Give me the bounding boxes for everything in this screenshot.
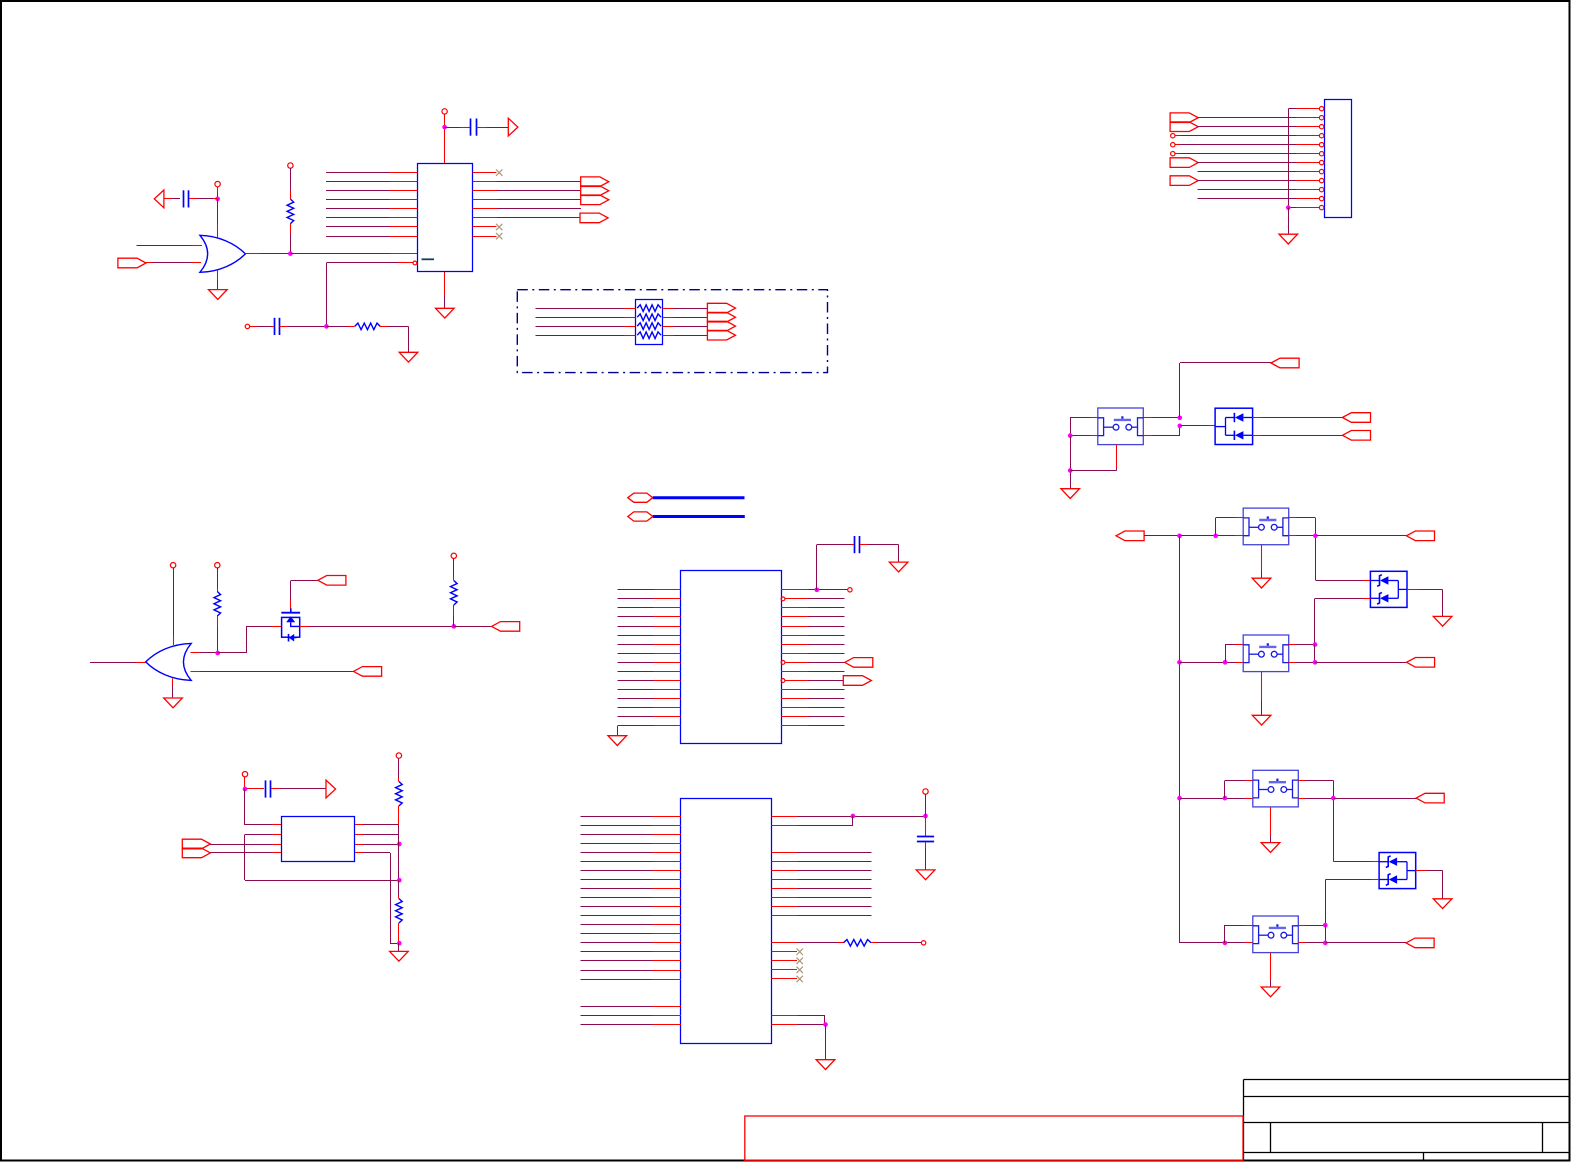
wire R4 to node chain [398,806,400,880]
wire U2B input 2 [191,671,354,673]
junction U4 R1 / C5 [923,814,928,819]
wire U4 left pin 6 [581,861,682,863]
junction S5 right bottom [1323,941,1328,946]
wire U1 left pin 5 [326,208,418,210]
ground (C4) [889,562,908,572]
pin bubble J1 pin 3 [1319,125,1323,129]
wire S1 right top [1144,417,1181,419]
wire U4 left pin 11 [581,906,682,908]
wire Q1 gate [291,581,319,609]
wire R3 to node [217,616,219,653]
wire C1 right to junction [189,198,218,200]
wire U4 left pin 5 [581,852,682,854]
wire S1 left bottom [1070,435,1098,437]
wire S4 bottom pin [1270,807,1272,843]
switch S4 [1253,770,1299,807]
wire D2 out [1407,590,1443,617]
wire U1 pin 10 (enable net) [327,263,414,327]
wire RP1 right pin 1 [663,308,708,310]
port arrow (U5 input B) [182,848,210,858]
wire S2 right bottom [1288,535,1316,537]
wire RP1 left pin 1 [536,308,636,310]
resistor element RP1-4 [637,332,661,339]
switch S3 [1243,635,1289,672]
wire U4 left pin 2 [581,825,682,827]
wire U4 left pin 19 [581,979,682,981]
wire C3 to power arrow [477,127,509,129]
wire U4 right pin 2 [772,816,854,826]
wire U3 left pin 16 to ground [618,726,681,736]
wire U3 right pin 10 [781,671,845,673]
wire U2B input 1 [191,652,218,654]
wire J1 pin 1 to bus vertical [1289,108,1297,110]
junction S4 right [1331,796,1336,801]
port arrow (row4 net) [1416,793,1444,803]
wire U1 left pin 2 [326,181,418,183]
wire row2 input [1144,535,1180,537]
ground (U5) [390,951,409,961]
junction S5 left [1223,941,1228,946]
resistor R1 [287,199,294,224]
wire S2 left bracket [1216,518,1244,537]
ground (U3 left) [608,736,627,746]
wire J1 pin 11 stub [1297,198,1320,200]
port arrow (U1 R6) [580,213,608,223]
IC U5 [282,817,355,862]
wire R6 to ground node [398,923,400,943]
wire U1 left pin 6 [326,217,418,219]
wire U4 right pin 15 (NC) [772,978,798,980]
port arrow (RP1 out 3) [707,321,735,331]
wire C1 left [164,198,180,200]
pin bubble U3 pin R2 [781,597,785,601]
IC U4 [681,799,772,1044]
ground (U4) [816,1060,835,1070]
wire row4 to port [1334,798,1417,800]
ground (enable RC) [399,352,418,362]
junction S2 left [1213,533,1218,538]
wire J1 pin 2 stub [1297,117,1320,119]
resistor element RP1-1 [637,305,661,312]
power symbol VCC (above U1) [442,109,447,114]
wire U5 right pin 2 [355,834,399,836]
wire U4 left pin 7 [581,870,682,872]
wire U3 right pin 12 [781,689,845,691]
pin bubble J1 pin 11 [1319,196,1323,200]
wire VCC to C5 node [925,794,927,836]
port arrow (U2B input 2) [354,667,382,677]
junction R4/R6 chain [397,878,402,883]
port arrow (U2A input 2) [118,258,146,268]
wire D2 bottom lead [1315,599,1371,645]
junction row3 column [1177,660,1182,665]
junction R3/U2B input [215,651,220,656]
wire J1 pin 1 stub [1297,108,1320,110]
junction U5 power node [243,787,248,792]
pin bubble J1 pin 7 [1319,160,1323,164]
wire row2 to S2 [1180,535,1244,537]
terminal circle (enable input) [245,324,249,328]
OR gate U2A [200,235,246,272]
wire U4 left pin 16 [581,951,682,953]
wire U4 right pin 16 [772,1016,826,1025]
wire S4 to D3 [1334,861,1380,863]
diode pack D3 [1379,853,1416,889]
pin bubble J1 pin 8 [1319,169,1323,173]
wire U4 right pin 5 [772,870,872,872]
wire U3 left pin 13 [618,698,681,700]
wire U1 ground pin [444,272,446,309]
bus wire 1 [653,496,745,499]
wire J1 pin 3 [1198,126,1297,128]
wire U3 left pin 1 [618,589,681,591]
wire J1 ground vertical [1288,109,1290,208]
wire S1 right bottom [1144,426,1181,436]
junction U3 pin R1 / C4 [814,587,819,592]
capacitor C3 [471,119,477,136]
junction S3 left [1223,660,1228,665]
wire U1 right pin R4 [473,199,581,201]
wire S2 to D2 [1316,580,1371,582]
port arrow (D1 top) [1342,413,1370,423]
port arrow (J1 pin 7) [1170,158,1198,168]
power arrow port (right of C3) [508,118,518,136]
wire S1 bottom pin [1070,445,1117,471]
wire U4 left pin 10 [581,897,682,899]
port arrow (RP1 out 4) [707,330,735,340]
IC U3 [681,571,782,744]
power symbol VCC (near C1) [215,181,220,186]
power symbol VCC (U5) [242,772,247,777]
wire U4 right pin 13 (NC) [772,960,798,962]
wire J1 pin 9 [1198,180,1297,182]
port arrow (row2 input) [1116,531,1144,541]
wire D1 out bottom [1253,435,1343,437]
port arrow (U5 input A) [182,839,210,849]
red revision box [745,1116,1243,1160]
wire junction to C3 [445,127,471,129]
ground (C5) [916,870,935,880]
wire U4 left pin 12 [581,915,682,917]
pin bubble J1 pin 9 [1319,178,1323,182]
wire R1 to net [290,224,292,254]
wire U4 left pin 9 [581,888,682,890]
wire U5 right pin 4 [355,853,399,944]
wire S2 right top [1288,518,1316,581]
port arrow (U1 R4) [581,195,609,205]
wire U1 left pin 8 [326,236,418,238]
wire net to port (row1 top) [1180,363,1272,419]
ground (D3) [1433,899,1452,909]
wire VCC to U2B top pin [173,568,175,645]
wire J1 pin 2 [1198,117,1297,119]
wire U1 right pin R3 [473,190,581,192]
wire U3 left pin 3 [618,607,681,609]
wire VCC to R1 [290,168,292,199]
ground (S3) [1252,715,1271,725]
IC U1 [418,164,473,272]
junction row2 column [1177,533,1182,538]
wire U4 right pin 1 [772,816,926,818]
junction S1 right top [1177,415,1182,420]
wire junction to R5 [327,326,355,328]
wire S5 right top [1299,925,1326,927]
wire U3 right pin 5 [781,626,845,628]
wire row5 to S5 [1180,942,1254,944]
wire D3 out [1416,871,1443,900]
wire VCC to R2 [453,559,455,581]
wire C2 to junction [280,326,327,328]
wire D3 bottom lead [1326,880,1380,926]
junction R6/ground [397,941,402,946]
junction J1 pin 12 / ground [1286,205,1291,210]
ground (D2) [1433,616,1452,626]
pin bubble J1 pin 1 [1319,107,1323,111]
wire J1 pin 12 stub [1297,207,1320,209]
wire U4 right pin 9 [772,906,872,908]
resistor R6 [396,899,403,924]
wire U3 right pin 1 [781,589,848,591]
wire U3 right pin 11 [785,680,844,682]
port arrow (U1 R2) [581,177,609,187]
wire J1 pin 12 to ground [1288,208,1290,235]
wire U4 left pin 15 [581,942,682,944]
wire row3 to S3 [1180,662,1244,664]
resistor element RP1-2 [637,314,661,321]
power symbol VCC (above R2) [451,553,456,558]
wire U5 pin 4 [211,852,282,854]
wire U4 right pin 7 [772,888,872,890]
port arrow (row2 net) [1406,531,1434,541]
port arrow (Q1 drain net) [492,622,520,632]
wire U4 left pin 3 [581,834,682,836]
wire U4 left pin 18 [581,970,682,972]
wire U4 right pin 14 (NC) [772,969,798,971]
wire J1 pin 11 [1198,198,1297,200]
wire U4 left pin 14 [581,933,682,935]
wire U4 right pin 17 [772,1024,826,1026]
wire U1 right pin R2 [473,181,581,183]
pin bubble J1 pin 10 [1319,187,1323,191]
junction U1 power node [442,125,447,130]
junction U4 bottom right [823,1022,828,1027]
switch S2 [1243,508,1289,545]
wire junction to C6 [247,788,264,790]
port arrow (RP1 out 2) [707,312,735,322]
wire U3 left pin 6 [618,635,681,637]
pin bubble J1 pin 6 [1319,152,1323,156]
wire U3 right pin 4 [781,616,845,618]
ground (under J1) [1279,234,1298,244]
terminal circle (J1 pin 6) [1171,152,1175,156]
wire row5 to port [1326,942,1407,944]
resistor R3 [214,592,221,617]
wire C6 to power arrow [271,788,326,790]
wire U4 left pin 17 [581,960,682,962]
wire node to port [454,626,492,628]
wire C4 branch [817,545,855,591]
port arrow (D1 bottom) [1342,431,1370,441]
junction node C1/OR input [215,197,220,202]
wire VCC to U1 power pin [444,114,446,163]
resistor R5 [355,323,381,330]
resistor R2 [451,581,458,606]
wire U1 left pin 4 [326,199,418,201]
capacitor C4 [855,536,860,553]
ground (S1) [1061,489,1080,499]
wire U4 right pin 6 [772,879,872,881]
wire U3 left pin 10 [618,671,681,673]
wire U3 left pin 12 [618,689,681,691]
port arrow (row3 net) [1407,658,1435,668]
wire row2 to port [1316,535,1407,537]
junction S5 right top [1323,923,1328,928]
wire U5 right pin 3 [355,844,399,846]
wire U2A input 2 [146,262,201,264]
pin bubble J1 pin 2 [1319,116,1323,120]
junction S4 left [1223,796,1228,801]
no-connect x U1 pin R7 [496,224,502,230]
wire S3 bottom pin [1261,672,1263,716]
wire S1 left top [1070,418,1098,436]
wire S5 bottom pin [1270,953,1272,988]
no-connect x U1 pin R8 [496,233,502,239]
OR gate U2B [146,643,192,680]
wire S4 left bracket [1225,781,1254,799]
ground (S2) [1252,578,1271,588]
wire U3 left pin 7 [618,644,681,646]
wire RP1 left pin 3 [536,326,636,328]
ground (under U1) [436,308,455,318]
capacitor C6 [266,780,271,797]
no-connect x U4 pin 12 [797,949,803,955]
wire U2A input 1 [137,245,203,247]
wire U3 right pin 14 [781,707,845,709]
wire S5 right bottom [1299,925,1326,943]
port arrow (RP1 out 1) [707,303,735,313]
wire U5 pin 3 [211,844,282,846]
wire RP1 right pin 3 [663,326,708,328]
wire junction down to U2A top pin [217,199,219,238]
power symbol VCC (above R4) [396,753,401,758]
wire U3 right pin 6 [781,635,845,637]
wire S1 left vertical to ground [1070,436,1072,489]
wire U3 left pin 4 [618,616,681,618]
wire U4 right pin 10 [772,915,872,917]
pin bubble J1 pin 4 [1319,134,1323,138]
dashed option box [517,290,827,373]
wire U3 right pin 16 [781,725,845,727]
wire Q1 drain [300,626,455,628]
wire U4 left pin 4 [581,843,682,845]
wire RP1 right pin 4 [663,335,708,337]
junction row4 column [1177,796,1182,801]
wire U3 left pin 5 [618,626,681,628]
pin bubble U3 pin R11 [781,679,785,683]
wire U2B output [90,662,146,664]
wire U3 left pin 11 [618,680,681,682]
resistor element RP1-3 [637,323,661,330]
wire U1 right pin R8 (NC) [473,236,497,238]
junction U5 R3 node [397,842,402,847]
wire R2 to node [453,605,455,627]
diode pack D1 [1215,408,1253,444]
transistor Q1 [281,608,300,641]
power symbol VCC (above R1) [288,163,293,168]
port arrow (row1 net) [1271,358,1299,368]
wire S3 right top [1289,644,1316,646]
negation dash inside U1 [422,258,435,260]
wire U3 left pin 8 [618,653,681,655]
wire U2A output [246,253,291,255]
no-connect x U4 pin 14 [797,967,803,973]
wire U4 left pin 22 [581,1024,682,1026]
wire U1 right pin R6 [473,217,581,219]
wire U5 pin 2 loop [245,835,400,881]
junction enable node [324,324,329,329]
wire U1 right pin R5 (open) [473,208,582,210]
pin bubble J1 pin 12 [1319,205,1323,209]
wire RP1 left pin 2 [536,317,636,319]
terminal circle (J1 pin 5) [1171,143,1175,147]
capacitor C5 [917,837,934,842]
wire U4 left pin 13 [581,924,682,926]
no-connect x U4 pin 15 [797,976,803,982]
wire VCC to junction [244,777,246,789]
diode pack D2 [1370,571,1407,607]
wire terminal to C2 [250,326,274,328]
wire U3 left pin 15 [618,716,681,718]
ground (S4) [1261,843,1280,853]
wire U4 left pin 8 [581,879,682,881]
wire U3 right pin 2 [785,598,845,600]
title block [1244,1080,1570,1161]
capacitor C2 [275,318,280,335]
wire U1 left pin 7 [326,226,418,228]
wire S4 right bottom [1299,798,1334,800]
wire S5 left bracket [1225,925,1254,943]
no-connect x U4 pin 13 [797,958,803,964]
ground (under U2B) [164,698,183,708]
wire U4 right pin 4 [772,861,872,863]
pin bubble U3 pin R9 [781,661,785,665]
junction S1 left [1068,433,1073,438]
wire J1 pin 8 stub [1297,171,1320,173]
wire J1 pin 5 stub [1297,144,1320,146]
bus port (bus 2) [628,512,653,521]
wire J1 pin 4 stub [1297,135,1320,137]
wire U4 right pin 8 [772,897,872,899]
wire U3 right pin 9 [785,662,845,664]
terminal circle (J1 pin 4) [1171,134,1175,138]
wire S1 to D1 [1180,425,1215,427]
wire U3 right pin 3 [781,607,845,609]
wire J1 pin 3 stub [1297,126,1320,128]
port arrow (Q1 gate) [318,576,346,586]
port arrow (J1 pin 2) [1170,113,1198,123]
wire U3 right pin 7 [781,644,845,646]
wire row4 to S4 [1180,798,1254,800]
wire J1 pin 8 [1198,171,1297,173]
port arrow (U3 R9) [845,658,873,668]
wire R5 to ground [380,327,409,353]
wire U5 right pin 1 [355,824,399,826]
connector J1 [1325,100,1352,218]
junction S1 bottom [1068,468,1073,473]
junction R1/U2A output [288,251,293,256]
capacitor C1 [184,190,189,207]
port arrow (J1 pin 3) [1170,122,1198,132]
